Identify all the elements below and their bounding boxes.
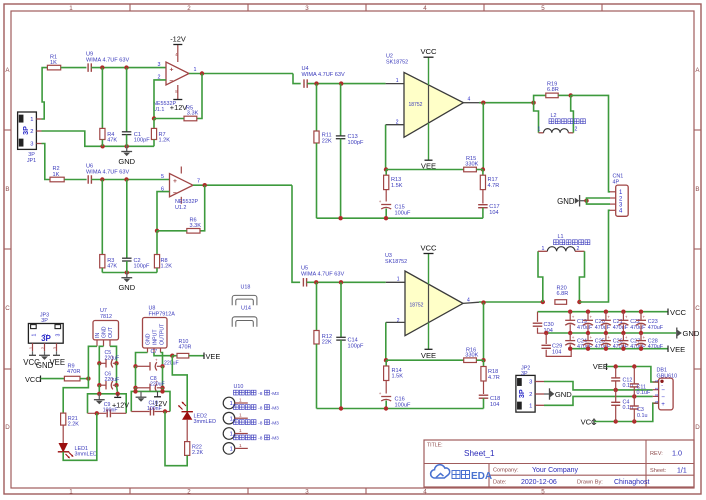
svg-text:SK18752: SK18752: [386, 60, 408, 66]
svg-text:6.8R: 6.8R: [547, 87, 559, 93]
svg-text:GBU610: GBU610: [657, 373, 678, 379]
wire JP1.1 to R1: [42, 68, 48, 119]
svg-text:3: 3: [305, 5, 309, 12]
capacitor C29: [541, 331, 571, 357]
wire U2 pin2: [384, 125, 404, 172]
svg-text:1: 1: [30, 117, 33, 123]
resistor R4: [100, 68, 118, 147]
power VEE at U2: [421, 123, 436, 171]
svg-text:3: 3: [55, 333, 61, 336]
wire output row to R19/L2: [534, 95, 546, 102]
svg-text:VCC: VCC: [25, 375, 41, 384]
wire U7 pin1 to R9 node: [88, 346, 97, 378]
power VCC flag to R9: [25, 375, 64, 384]
svg-text:VCC: VCC: [670, 308, 687, 317]
svg-text:L1: L1: [558, 234, 564, 240]
capacitor C8: [136, 376, 165, 392]
svg-text:5: 5: [161, 174, 164, 180]
wire L2 to CN1 pin1: [571, 95, 610, 191]
svg-text:104: 104: [489, 210, 498, 216]
svg-text:-M3: -M3: [271, 405, 280, 411]
svg-text:GND: GND: [118, 157, 135, 166]
wire R5 to node: [154, 118, 184, 120]
svg-text:1: 1: [230, 447, 233, 453]
svg-text:1.5K: 1.5K: [391, 183, 403, 189]
svg-text:1: 1: [69, 5, 73, 12]
resistor R13: [384, 170, 403, 202]
svg-text:Chinaghost: Chinaghost: [614, 479, 649, 486]
svg-text:470uF: 470uF: [577, 325, 593, 331]
resistor R22: [185, 442, 204, 457]
svg-text:100uF: 100uF: [395, 402, 411, 408]
svg-text:3P: 3P: [41, 318, 48, 324]
capacitor C4: [611, 390, 633, 422]
svg-text:2: 2: [529, 392, 532, 398]
connector JP1: [18, 112, 42, 164]
wire U3 output: [463, 300, 545, 305]
svg-text:1: 1: [194, 67, 197, 73]
svg-text:2: 2: [187, 489, 191, 496]
wire output to R17 node: [481, 103, 485, 172]
wire R6 to node: [157, 230, 187, 232]
svg-text:B: B: [695, 186, 699, 193]
wire U2 output: [463, 101, 535, 105]
svg-text:−: −: [173, 190, 177, 197]
amplifier U3 SK18752: [385, 253, 470, 336]
capacitor C13: [336, 84, 364, 219]
svg-text:3.3K: 3.3K: [187, 111, 199, 117]
svg-text:+: +: [643, 335, 646, 340]
wire R15 to node: [476, 169, 483, 171]
svg-text:330K: 330K: [465, 353, 478, 359]
svg-text:5: 5: [541, 489, 545, 496]
svg-text:+: +: [379, 391, 382, 396]
power +12V at U1.1 pin8: [170, 100, 188, 113]
capacitor C25: [583, 333, 611, 351]
svg-text:L2: L2: [551, 113, 557, 119]
svg-text:IN: IN: [95, 333, 101, 338]
bridge rectifier DB1: [653, 367, 677, 410]
svg-text:GND: GND: [101, 326, 107, 338]
svg-text:U1.2: U1.2: [175, 205, 186, 211]
svg-text:-M3: -M3: [271, 420, 280, 426]
svg-text:7: 7: [197, 178, 200, 184]
svg-text:+12V: +12V: [170, 103, 188, 112]
wire R8 to gnd rail 2: [156, 268, 158, 273]
svg-text:FHP7912A: FHP7912A: [149, 311, 176, 317]
wire R16 to node: [476, 359, 483, 361]
svg-text:220uF: 220uF: [164, 360, 179, 366]
resistor R17: [480, 170, 499, 204]
capacitor C1: [122, 68, 150, 147]
title block: [424, 440, 694, 487]
svg-text:1/1: 1/1: [677, 467, 687, 474]
wire output to R6: [200, 185, 205, 231]
svg-text:+: +: [155, 358, 158, 363]
amplifier U2 SK18752: [386, 54, 471, 138]
svg-text:-M3: -M3: [271, 391, 280, 397]
capacitor U5: [301, 266, 344, 287]
svg-text:U18: U18: [241, 285, 251, 291]
ground GND at JP2 pin2: [544, 388, 572, 399]
wire U1.2 out to U5: [292, 185, 300, 282]
svg-text:1: 1: [239, 413, 242, 419]
ground GND flag U8: [136, 391, 147, 401]
svg-text:3P: 3P: [21, 126, 30, 135]
wire node to R7: [153, 119, 155, 129]
resistor R18: [481, 360, 500, 394]
svg-text:GND: GND: [118, 283, 135, 292]
resistor R9: [64, 363, 80, 381]
wire output to R18 node: [481, 303, 485, 363]
capacitor C28: [636, 333, 664, 351]
capacitor C19: [565, 310, 593, 336]
svg-text:VEE: VEE: [593, 362, 608, 371]
svg-text:-8: -8: [258, 420, 263, 426]
capacitor C16: [379, 391, 411, 409]
svg-text:1: 1: [239, 398, 242, 404]
svg-text:22K: 22K: [322, 138, 332, 144]
power -12V flag U8: [152, 391, 167, 407]
resistor R6: [187, 218, 201, 234]
svg-text:470uF: 470uF: [648, 325, 664, 331]
LCEDA logo: [431, 465, 492, 482]
capacitor C10: [147, 400, 162, 415]
resistor R5: [184, 105, 199, 120]
svg-text:TITLE:: TITLE:: [427, 443, 443, 449]
svg-text:3P: 3P: [521, 371, 528, 377]
svg-text:-8: -8: [258, 391, 263, 397]
svg-text:470R: 470R: [67, 369, 80, 375]
wire JP1.3 to R2: [42, 144, 51, 180]
svg-text:INPUT: INPUT: [153, 329, 159, 345]
connector JP2: [516, 365, 544, 412]
capacitor C20: [583, 310, 611, 336]
svg-text:0.1uF: 0.1uF: [637, 390, 651, 396]
svg-text:+: +: [173, 178, 177, 185]
capacitor C7: [136, 349, 179, 371]
wire JP2.3 to DB1 pin2: [544, 382, 653, 393]
ground GND at JP3 pin2: [36, 351, 54, 370]
label L1 value: [554, 240, 590, 245]
inductor L1: [538, 234, 585, 302]
svg-text:C: C: [695, 305, 700, 312]
svg-text:D: D: [5, 424, 10, 431]
svg-text:Date:: Date:: [493, 480, 507, 486]
svg-text:GND: GND: [555, 390, 572, 399]
capacitor C15: [379, 199, 411, 218]
wire U6 to U1.2 pin5: [91, 177, 169, 181]
svg-text:VEE: VEE: [421, 351, 436, 360]
resistor R1: [47, 54, 60, 70]
svg-text:1: 1: [239, 428, 242, 434]
svg-text:+: +: [625, 335, 628, 340]
wire U3 pin2: [384, 322, 405, 362]
svg-text:18752: 18752: [410, 303, 424, 309]
capacitor C24: [565, 333, 593, 351]
svg-text:WIMA 4.7UF 63V: WIMA 4.7UF 63V: [301, 272, 344, 278]
diode LED2: [178, 402, 216, 426]
capacitor C22: [618, 310, 646, 336]
wire U8 pin1 to cap column: [133, 353, 147, 369]
svg-text:22K: 22K: [322, 340, 332, 346]
svg-text:Sheet:: Sheet:: [650, 468, 667, 474]
svg-text:470uF: 470uF: [595, 325, 611, 331]
resistor R10: [172, 339, 191, 358]
inductor L2: [534, 95, 578, 132]
svg-text:2: 2: [575, 127, 578, 133]
svg-text:2: 2: [577, 246, 580, 252]
capacitor C11: [630, 367, 651, 397]
svg-text:+: +: [661, 401, 665, 408]
svg-text:4: 4: [423, 5, 427, 12]
capacitor U9: [86, 52, 129, 72]
svg-text:1: 1: [542, 246, 545, 252]
svg-text:3: 3: [30, 142, 33, 148]
op-amp U1.1: [153, 45, 197, 114]
svg-text:U14: U14: [241, 306, 251, 312]
mounting holes U10: [223, 384, 279, 454]
svg-text:1: 1: [396, 78, 399, 84]
svg-text:WIMA 4.7UF 63V: WIMA 4.7UF 63V: [86, 169, 129, 175]
svg-text:4: 4: [468, 97, 471, 103]
resistor R12: [314, 282, 332, 408]
capacitor C17: [478, 204, 499, 218]
svg-text:3mmLED: 3mmLED: [194, 419, 217, 425]
wire bottom rail ch1: [317, 216, 483, 220]
jumper U18: [232, 285, 257, 306]
svg-text:1: 1: [31, 333, 37, 336]
capacitor C30: [533, 312, 554, 334]
svg-text:+: +: [607, 335, 610, 340]
svg-text:-8: -8: [258, 436, 263, 442]
capacitor C14: [336, 282, 364, 408]
svg-text:470uF: 470uF: [577, 344, 593, 350]
wire U8 bypass loop: [131, 388, 170, 414]
wire LED1 return: [63, 413, 97, 460]
capacitor C3: [630, 396, 648, 421]
resistor R11: [314, 84, 332, 219]
svg-text:470uF: 470uF: [630, 344, 646, 350]
svg-text:0.1u: 0.1u: [637, 413, 648, 419]
svg-text:1: 1: [230, 401, 233, 407]
wire GND to CN1 pins 2 3: [587, 198, 611, 204]
power -12V at U1.1 pin4: [170, 35, 186, 45]
wire U1.1 output: [189, 71, 293, 75]
wire U7 bypass loop: [88, 385, 127, 415]
svg-text:+: +: [379, 199, 382, 204]
svg-text:18752: 18752: [409, 102, 423, 108]
svg-text:47K: 47K: [107, 263, 117, 269]
svg-text:470uF: 470uF: [613, 325, 629, 331]
ground GND under C1: [118, 146, 135, 166]
svg-text:1: 1: [538, 127, 541, 133]
svg-text:100pF: 100pF: [134, 137, 150, 143]
wire cap columns U8: [133, 366, 164, 390]
svg-text:+: +: [590, 335, 593, 340]
wire gnd rail ch1: [42, 131, 155, 149]
svg-text:SK18752: SK18752: [385, 259, 407, 265]
svg-text:OUTPUT: OUTPUT: [160, 323, 166, 345]
wire U5 to U3 pin1: [307, 280, 405, 284]
svg-text:−: −: [170, 78, 174, 85]
svg-text:1.2K: 1.2K: [159, 137, 171, 143]
capacitor C26: [601, 333, 629, 351]
svg-text:47K: 47K: [107, 137, 117, 143]
svg-text:1: 1: [397, 277, 400, 283]
svg-text:Your Company: Your Company: [532, 467, 579, 474]
svg-text:470R: 470R: [179, 345, 192, 351]
svg-text:3: 3: [158, 62, 161, 68]
wire U1.1 pin2 feedback: [152, 80, 166, 121]
svg-text:1.5K: 1.5K: [392, 374, 404, 380]
svg-text:4.7R: 4.7R: [488, 183, 500, 189]
svg-text:2: 2: [43, 333, 49, 336]
capacitor C18: [479, 395, 501, 408]
power VCC at JP3 pin1: [23, 351, 40, 367]
svg-text:100nF: 100nF: [103, 407, 118, 413]
svg-text:220uF: 220uF: [150, 382, 165, 388]
svg-text:Company:: Company:: [493, 468, 519, 474]
resistor R21: [61, 413, 80, 428]
svg-text:100pF: 100pF: [348, 140, 364, 146]
wire U1.2 output: [193, 183, 292, 187]
svg-text:+: +: [625, 315, 628, 320]
wire cap columns U7: [97, 363, 119, 387]
svg-text:GND: GND: [683, 329, 700, 338]
wire U4 to U2 pin1: [307, 81, 404, 85]
svg-text:C: C: [5, 305, 10, 312]
power +12V flag U7: [112, 394, 129, 410]
svg-text:100pF: 100pF: [134, 263, 150, 269]
wire gnd rail ch2: [102, 270, 157, 274]
wire JP2.1 to DB1 pin3: [544, 394, 653, 405]
svg-text:+: +: [572, 335, 575, 340]
svg-text:3: 3: [529, 380, 532, 386]
power VCC row DB1: [581, 403, 659, 426]
connector CN1: [610, 174, 628, 217]
svg-text:D: D: [695, 424, 700, 431]
power VEE label right: [668, 345, 685, 354]
svg-text:470uF: 470uF: [648, 344, 664, 350]
svg-text:4P: 4P: [613, 180, 620, 186]
svg-text:VEE: VEE: [49, 358, 65, 367]
capacitor C12: [611, 367, 633, 390]
svg-text:4: 4: [423, 489, 427, 496]
wire VCC rail: [538, 311, 669, 313]
svg-text:3P: 3P: [517, 389, 526, 398]
op-amp U1.2: [161, 167, 200, 212]
svg-text:2.2K: 2.2K: [192, 450, 203, 456]
svg-text:C7: C7: [151, 349, 158, 355]
svg-text:U10: U10: [234, 384, 244, 390]
resistor R7: [151, 128, 170, 143]
svg-text:220uF: 220uF: [105, 377, 120, 383]
svg-text:2: 2: [30, 129, 33, 135]
svg-text:100nF: 100nF: [147, 406, 162, 412]
svg-text:+: +: [607, 315, 610, 320]
wire VEE rail: [570, 348, 668, 350]
wire U1.2 pin6 feedback: [155, 192, 170, 233]
wire U1.1 out to U4: [293, 74, 301, 84]
svg-text:3: 3: [305, 489, 309, 496]
svg-text:1: 1: [239, 443, 242, 449]
wire U7 pin3 to out column: [110, 346, 119, 365]
wire U7 pin2 to cap column: [97, 346, 103, 365]
power VEE row DB1: [593, 362, 659, 382]
svg-text:+: +: [643, 315, 646, 320]
power VEE at JP3 pin3: [49, 351, 65, 367]
svg-text:470uF: 470uF: [613, 344, 629, 350]
wire R9 node: [80, 376, 91, 380]
capacitor C2: [122, 180, 150, 273]
capacitor C23: [636, 310, 664, 336]
svg-text:1: 1: [529, 403, 532, 409]
svg-text:7812: 7812: [100, 314, 112, 320]
wire output to R5: [197, 74, 202, 119]
power VCC at U3: [420, 244, 437, 323]
svg-text:B: B: [5, 186, 9, 193]
svg-text:2: 2: [187, 5, 191, 12]
ground GND label right: [677, 328, 700, 339]
wire R1 to U9: [61, 67, 87, 69]
svg-text:1: 1: [69, 489, 73, 496]
wire R2 to U6: [64, 179, 86, 181]
resistor R15: [464, 156, 479, 172]
capacitor C9: [103, 402, 118, 418]
svg-text:1.2K: 1.2K: [161, 263, 173, 269]
wire R22 return: [165, 412, 187, 466]
ground GND at CN1: [557, 195, 589, 207]
svg-text:6.8R: 6.8R: [557, 291, 569, 297]
svg-text:104: 104: [552, 349, 561, 355]
svg-text:1: 1: [29, 346, 34, 349]
ground GND under C2: [118, 273, 135, 292]
wire LED2 to R22: [186, 419, 188, 441]
svg-text:1: 1: [230, 416, 233, 422]
connector JP3: [28, 312, 63, 351]
capacitor U6: [86, 164, 129, 184]
svg-text:Drawn By:: Drawn By:: [577, 480, 603, 486]
wire R19 right node: [558, 93, 573, 97]
svg-text:+: +: [170, 66, 174, 73]
svg-text:WIMA 4.7UF 63V: WIMA 4.7UF 63V: [302, 72, 345, 78]
resistor R14: [384, 360, 404, 393]
svg-text:GND: GND: [557, 197, 575, 206]
wire bottom rail ch2: [317, 406, 484, 410]
resistor R3: [100, 180, 118, 273]
label L2 value: [549, 119, 585, 124]
wire feedback rail ch1: [386, 169, 464, 171]
svg-text:VEE: VEE: [670, 345, 685, 354]
wire GND rail: [546, 332, 676, 334]
svg-text:-12V: -12V: [170, 35, 186, 44]
power VCC label right: [668, 308, 687, 317]
svg-text:REV:: REV:: [650, 451, 663, 457]
svg-text:470uF: 470uF: [595, 344, 611, 350]
jumper U14: [232, 306, 257, 327]
svg-text:330K: 330K: [465, 161, 478, 167]
svg-text:GND: GND: [146, 333, 152, 345]
capacitor C5: [99, 350, 119, 368]
svg-text:2020-12-06: 2020-12-06: [521, 479, 557, 486]
svg-text:VCC: VCC: [420, 47, 437, 56]
svg-text:1K: 1K: [50, 60, 57, 66]
svg-text:Sheet_1: Sheet_1: [464, 449, 495, 458]
svg-text:EDA: EDA: [471, 471, 492, 482]
resistor R16: [464, 347, 479, 362]
wire U9 to U1.1 pin3: [91, 65, 166, 69]
